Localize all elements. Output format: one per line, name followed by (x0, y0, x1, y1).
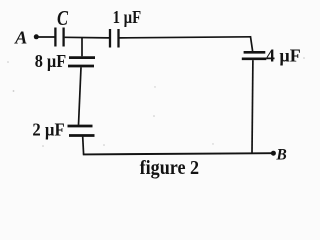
svg-text:2 µF: 2 µF (32, 120, 64, 140)
svg-text:1 µF: 1 µF (113, 7, 142, 27)
scan speckles (7, 57, 305, 147)
svg-text:8 µF: 8 µF (35, 51, 66, 71)
wire 8uF to 2uF capacitor (79, 67, 82, 125)
capacitor C3 4uF (242, 52, 266, 59)
wire top-right corner down to 4uF (250, 36, 252, 51)
capacitor C2 8uF (68, 58, 95, 66)
svg-text:C: C (57, 6, 69, 30)
svg-text:4 µF: 4 µF (266, 46, 301, 66)
node A (14, 28, 39, 48)
wire C to capacitor 1uF (through junction) (65, 36, 110, 39)
node B (271, 147, 287, 164)
bottom wire to node B (83, 153, 273, 154)
capacitor C1 1uF (110, 29, 119, 48)
svg-text:figure 2: figure 2 (140, 157, 200, 179)
svg-text:B: B (275, 147, 287, 164)
wire A to capacitor C (36, 36, 54, 38)
wire 4uF down to bottom wire (251, 60, 254, 153)
wire junction down to 8uF capacitor (81, 38, 83, 57)
capacitor C4 2uF (68, 126, 95, 136)
capacitor C (55, 28, 63, 47)
wire 2uF down to bottom-left corner (82, 137, 85, 155)
wire 1uF to top-right corner (120, 37, 251, 38)
svg-text:A: A (14, 28, 27, 48)
